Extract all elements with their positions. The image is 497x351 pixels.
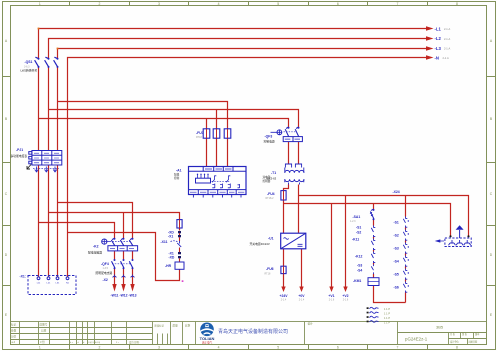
svg-text:-QS1: -QS1 <box>25 60 33 64</box>
wire 24V bus upper <box>299 196 469 237</box>
fuse FU2 <box>213 129 220 138</box>
wire L3 branch to fuse FU3 <box>58 102 228 167</box>
controller A1 interlock dashes <box>212 180 231 182</box>
svg-text:-X1:: -X1: <box>20 274 26 278</box>
svg-text:1: 1 <box>39 346 41 350</box>
svg-text:8: 8 <box>456 2 458 6</box>
title block big cells <box>305 322 398 345</box>
svg-text:RT18: RT18 <box>265 272 271 275</box>
svg-text:-L2: -L2 <box>435 36 442 41</box>
svg-text:3 r: 3 r <box>116 341 119 344</box>
svg-text:2-1.A: 2-1.A <box>444 27 450 31</box>
meter PJ1 CT arrow 1 <box>35 167 39 173</box>
zone ticks right <box>487 77 496 286</box>
svg-text:3: 3 <box>158 346 160 350</box>
arrow N out <box>426 55 434 60</box>
power supply U1 body <box>281 233 306 249</box>
wire transformer secondary left leg to fuse FU4 <box>284 185 289 234</box>
svg-text:3B5: 3B5 <box>436 325 444 330</box>
svg-text:2-1.6: 2-1.6 <box>329 299 335 302</box>
meter PJ1 PE arrow <box>27 165 31 170</box>
svg-text:底图号: 底图号 <box>40 323 48 327</box>
lamp HL1 <box>449 240 456 245</box>
terminal strip X1 dashed box <box>28 276 76 295</box>
svg-text:1 0(2.0 E4.0): 1 0(2.0 E4.0) <box>88 342 101 344</box>
svg-text:质量: 质量 <box>173 323 179 327</box>
node grip L1 corner <box>38 28 184 282</box>
svg-text:-T1: -T1 <box>271 171 276 175</box>
fuse FU6 <box>281 266 286 273</box>
legend symbol row 3 <box>367 316 369 318</box>
svg-text:1-3.5: 1-3.5 <box>103 267 109 270</box>
zone ticks left <box>3 77 11 286</box>
contact KA1 <box>370 226 378 238</box>
title block column lines left part <box>20 322 196 345</box>
svg-text:-S6: -S6 <box>394 285 399 289</box>
breaker QF3 pole 2 <box>295 127 299 137</box>
svg-text:3 份: 3 份 <box>40 340 45 344</box>
svg-text:-PJ1: -PJ1 <box>16 148 23 152</box>
title block signature ticks <box>158 334 168 345</box>
contactor K2 terminal bar <box>108 246 138 251</box>
ARROWS <box>112 26 433 292</box>
svg-text:青岛天正电气设备制造有限公司: 青岛天正电气设备制造有限公司 <box>218 328 288 335</box>
svg-text:天正电气: 天正电气 <box>202 340 213 344</box>
TITLETEXT <box>11 322 480 345</box>
breaker QF4 pole 2 <box>121 261 124 268</box>
wire PSU right output <box>301 249 303 287</box>
controller A1 contact c <box>212 184 215 189</box>
terminal block X3 <box>283 137 302 142</box>
wire FU1 drop <box>206 119 208 167</box>
plug X2 contacts <box>113 275 135 278</box>
wire transformer primary feeders <box>289 142 299 165</box>
svg-text:2: 2 <box>98 2 100 6</box>
svg-text:-FU4: -FU4 <box>267 192 275 196</box>
node grip L3 corner <box>57 48 59 50</box>
fuse FU5 <box>177 220 182 228</box>
contact S4 <box>402 256 410 267</box>
svg-text:-X2: -X2 <box>103 278 108 282</box>
svg-text:-SA1: -SA1 <box>353 215 361 219</box>
breaker QS1 pole 2 <box>45 57 49 67</box>
breaker QF3 shunt coil <box>277 130 282 135</box>
svg-text:1 1 P: 1 1 P <box>384 307 390 311</box>
terminal mark XD2a <box>178 252 181 254</box>
contact S3 <box>402 243 410 254</box>
wire branch to arrow V1 <box>331 204 333 288</box>
legend symbol row 4 <box>367 321 369 323</box>
svg-text:RT18-2: RT18-2 <box>266 197 275 200</box>
svg-text:-HR: -HR <box>165 264 172 268</box>
terminal mark XD1b <box>178 235 181 237</box>
meter PJ1 cell marks <box>34 153 59 163</box>
svg-text:-A1: -A1 <box>176 168 182 172</box>
wire fuse FU5 to resistor chain <box>179 228 181 231</box>
LOGO <box>200 323 288 345</box>
meter PJ1 CT arrow 3 <box>53 167 57 173</box>
svg-text:-S4: -S4 <box>357 268 362 272</box>
power supply U1 diagonal <box>281 233 306 249</box>
transformer T1 secondary winding <box>285 179 304 181</box>
plug X11 <box>171 241 179 243</box>
meter PJ1 CT arrow 2 <box>45 167 49 173</box>
breaker QF4 pole 1 <box>112 261 115 268</box>
svg-text:控制电源: 控制电源 <box>264 140 275 144</box>
svg-text:-U1: -U1 <box>268 236 274 240</box>
svg-text:1 1 P: 1 1 P <box>384 320 390 324</box>
svg-text:7: 7 <box>396 2 398 6</box>
svg-text:6: 6 <box>337 2 339 6</box>
breaker QF3 pole 1 <box>285 127 289 137</box>
lamp box pointer <box>436 240 444 242</box>
svg-text:-QF4: -QF4 <box>101 262 109 266</box>
svg-text:日期: 日期 <box>41 329 47 333</box>
breaker QS1 pole 3 <box>54 57 58 67</box>
contactor K2 interlock dashes <box>110 241 132 243</box>
svg-text:a d: a d <box>12 340 16 344</box>
wire ladder right rail <box>405 196 407 303</box>
svg-text:-W12: -W12 <box>119 294 127 298</box>
arrow W11 down <box>112 284 116 292</box>
svg-text:-X1: -X1 <box>168 235 173 239</box>
breaker QS1 pole 1 <box>35 57 39 67</box>
svg-text:-L1: -L1 <box>435 27 442 32</box>
svg-text:2-1.A: 2-1.A <box>443 56 449 60</box>
arrow 24V down <box>281 287 285 293</box>
legend symbol row 2 <box>367 312 369 314</box>
arrow W13 down <box>130 284 134 292</box>
controller A1 contact a <box>212 176 216 183</box>
transformer T1 primary winding <box>285 170 304 172</box>
svg-text:照明配电支路: 照明配电支路 <box>96 271 113 275</box>
controller A1 coil pins <box>198 175 209 179</box>
svg-text:-K11: -K11 <box>352 238 359 242</box>
terminal mark XD1a <box>178 231 181 233</box>
contact KA3 <box>370 252 378 264</box>
svg-text:RT18: RT18 <box>196 136 202 139</box>
logo emblem <box>200 323 214 337</box>
svg-text:TOLIAN: TOLIAN <box>200 336 215 341</box>
terminal X1:3 <box>56 277 59 280</box>
wire transformer secondary right leg to PSU <box>298 185 300 234</box>
terminal X1:4 <box>66 277 69 280</box>
svg-text:-S5: -S5 <box>394 272 399 276</box>
svg-text:2-1.A: 2-1.A <box>444 37 450 41</box>
controller A1 top terminal row <box>189 167 247 172</box>
svg-text:1: 1 <box>39 2 41 6</box>
meter PJ1 CT dashed link <box>33 167 59 169</box>
wire K2 pole 2 drop <box>123 213 125 239</box>
wire L2 branch to contactor K2 pole 2 and fuse FU5 <box>49 213 180 220</box>
svg-text:5: 5 <box>277 346 279 350</box>
title block right stack <box>398 333 487 345</box>
svg-text:3: 3 <box>158 2 160 6</box>
svg-text:-K2: -K2 <box>93 245 99 249</box>
svg-text:+V2: +V2 <box>342 294 348 298</box>
svg-text:5: 5 <box>277 2 279 6</box>
svg-text:6: 6 <box>337 346 339 350</box>
svg-text:+24V: +24V <box>279 294 288 298</box>
svg-text:阶段标记: 阶段标记 <box>155 323 165 327</box>
wire L3 branch to contactor K2 pole 3 <box>58 203 133 239</box>
wire N riser lower <box>67 233 69 277</box>
controller A1 contact f <box>238 184 240 188</box>
svg-text:智能: 智能 <box>174 172 180 176</box>
controller A1 bottom terminal row <box>189 190 247 195</box>
wire L2 riser <box>48 67 50 277</box>
wire L3 feeder run <box>58 49 427 59</box>
svg-text:-S4: -S4 <box>394 259 399 263</box>
wire 24V bus lower <box>284 204 451 237</box>
contactor K2 coil symbol <box>102 239 107 244</box>
svg-text:-N: -N <box>435 55 439 60</box>
zone ticks bottom <box>70 345 428 350</box>
contact KA4 <box>370 265 378 275</box>
wire FU2 drop <box>216 110 218 167</box>
lamp HL3 <box>464 240 471 245</box>
buzzer HA1 <box>459 230 461 238</box>
wire L1 branch to fuse FU1 and breaker QF3 <box>39 119 289 128</box>
legend symbol row 1 <box>367 307 369 309</box>
svg-text:+0V: +0V <box>298 294 305 298</box>
svg-text:4: 4 <box>218 346 220 350</box>
controller A1 body <box>189 167 247 195</box>
contactor K2 pole 3 <box>129 238 133 246</box>
svg-text:-S2: -S2 <box>356 231 361 235</box>
svg-text:-S3: -S3 <box>394 246 399 250</box>
svg-text:1-2.3: 1-2.3 <box>350 220 356 223</box>
wire contactor K2 outputs <box>115 251 133 285</box>
fuse FU1 <box>203 129 210 138</box>
wire L2 feeder run <box>49 39 427 59</box>
contact S6 <box>402 282 410 293</box>
fuse FU4 <box>281 191 286 200</box>
svg-text:pG24E2z-1: pG24E2z-1 <box>405 337 428 342</box>
transformer T1 primary taps <box>285 164 301 168</box>
contact KA2 <box>370 239 378 251</box>
svg-text:JBK3-63: JBK3-63 <box>266 176 277 180</box>
wire L1 branch to contactor K2 pole 1 <box>39 223 115 239</box>
svg-text:配电接触器: 配电接触器 <box>88 251 102 255</box>
node J1 <box>449 235 451 237</box>
svg-text:2: 2 <box>98 346 100 350</box>
arrow L3 out <box>426 46 434 51</box>
controller A1 coil <box>196 178 211 183</box>
svg-text:-S2: -S2 <box>394 233 399 237</box>
svg-text:-W13: -W13 <box>128 294 136 298</box>
fuse FU3 <box>224 129 231 138</box>
TITLEBLOCK <box>11 322 487 345</box>
title block outline <box>11 322 487 345</box>
controller A1 contact b <box>226 176 230 183</box>
arrow L2 out <box>426 36 434 41</box>
svg-text:-FU1: -FU1 <box>196 131 204 135</box>
svg-text:比例: 比例 <box>185 323 191 327</box>
contact S1 <box>402 217 410 228</box>
lamp HL2 <box>456 240 463 245</box>
svg-text:2-1.4: 2-1.4 <box>299 299 305 302</box>
svg-text:标记: 标记 <box>11 323 17 327</box>
svg-text:处数: 处数 <box>11 329 17 333</box>
arrow 0V down <box>299 287 303 293</box>
wire L3 riser <box>57 67 59 277</box>
coil KM1 <box>368 278 379 286</box>
svg-text:分区: 分区 <box>11 334 17 338</box>
power supply U1 AC mark <box>284 238 289 240</box>
svg-text:7: 7 <box>396 346 398 350</box>
wire PSU left output through fuse FU6 <box>283 249 285 287</box>
contactor K2 pole 1 <box>111 238 115 246</box>
svg-text:2-1.A: 2-1.A <box>444 46 450 50</box>
svg-text:1 1 P: 1 1 P <box>384 311 390 315</box>
svg-text:多功能电度表: 多功能电度表 <box>11 154 28 158</box>
svg-text:-S1: -S1 <box>356 226 361 230</box>
svg-text:-L3: -L3 <box>435 46 442 51</box>
meter PJ1 terminals left <box>29 152 32 155</box>
svg-text:-X24: -X24 <box>393 190 400 194</box>
svg-text:2-1.6: 2-1.6 <box>343 299 349 302</box>
resistor HR1 <box>175 262 184 269</box>
contact S2 <box>402 230 410 241</box>
wire branch to arrow V2 <box>345 196 347 288</box>
lamp box HL dashed <box>445 238 471 247</box>
wire L2 branch to fuse FU2 and breaker QF3 <box>49 110 299 128</box>
svg-text:-W11: -W11 <box>111 294 119 298</box>
node J2 <box>467 235 469 237</box>
svg-text:-FU6: -FU6 <box>266 267 274 271</box>
wire N branch to resistor chain return <box>68 233 180 281</box>
power supply U1 DC mark <box>298 244 303 246</box>
meter PJ1 body <box>32 151 62 166</box>
svg-text:-S3: -S3 <box>357 263 362 267</box>
contact S5 <box>402 269 410 280</box>
svg-text:LW2转换开关: LW2转换开关 <box>21 69 38 73</box>
svg-text:控制: 控制 <box>174 176 180 180</box>
controller A1 contact d <box>220 184 223 189</box>
zone ticks top <box>70 2 428 6</box>
terminal X1:2 <box>47 277 50 280</box>
svg-text:-K12: -K12 <box>355 255 362 259</box>
controller A1 contact e <box>228 184 231 189</box>
terminal tags X1 <box>37 283 70 285</box>
breaker QF4 pole 3 <box>129 261 132 268</box>
wire N feeder run <box>68 58 427 233</box>
svg-text:1 1 P: 1 1 P <box>384 316 390 320</box>
contactor K2 pole 2 <box>120 238 124 246</box>
svg-text:-KM1: -KM1 <box>353 279 361 283</box>
svg-text:-XD: -XD <box>169 256 175 260</box>
switch SA1 <box>370 209 374 219</box>
svg-text:设计: 设计 <box>308 322 314 326</box>
terminal mark XD2b <box>178 256 181 258</box>
svg-text:+V1: +V1 <box>328 294 334 298</box>
title block row lines left part <box>11 328 153 340</box>
svg-text:开关电源DC24V: 开关电源DC24V <box>250 242 270 246</box>
svg-text:2-1.4: 2-1.4 <box>281 299 287 302</box>
wire L1 feeder run <box>39 29 427 59</box>
svg-text:8: 8 <box>456 346 458 350</box>
svg-text:4: 4 <box>218 2 220 6</box>
arrow L1 out <box>426 26 434 31</box>
controller A1 bottom pins <box>193 195 241 198</box>
svg-text:-X11: -X11 <box>161 240 168 244</box>
wire ladder left rail <box>374 204 406 303</box>
arrow K1 down <box>329 287 333 293</box>
arrow W12 down <box>121 284 125 292</box>
svg-text:-QF3: -QF3 <box>265 134 273 138</box>
arrow K2 down <box>343 287 347 293</box>
breaker QF3 interlock dashes <box>284 131 297 133</box>
breaker QF4 interlock dashes <box>112 263 131 265</box>
wire L1 riser <box>38 67 40 277</box>
node marker chain bottom <box>182 280 184 282</box>
wire chain mid <box>179 233 181 262</box>
svg-text:-S1: -S1 <box>394 220 399 224</box>
terminal X1:1 <box>37 277 40 280</box>
